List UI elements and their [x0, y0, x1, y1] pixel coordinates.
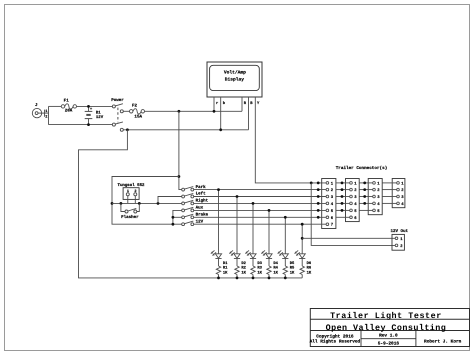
svg-text:D4: D4: [273, 261, 278, 265]
resistor R2 1K: [235, 261, 246, 278]
wire ground rail from power switch to display B pin corner: [123, 129, 248, 131]
flasher FL1 Tungsol 552: [117, 183, 144, 203]
svg-text:1K: 1K: [241, 271, 246, 275]
junction +12V at x179: [178, 110, 181, 113]
wire trailer row 6: [194, 216, 350, 218]
svg-text:R4: R4: [273, 266, 278, 270]
junction row tap D3: [252, 202, 255, 205]
svg-text:3: 3: [354, 195, 357, 200]
wire display pin Y to trailer row 1: [255, 97, 326, 183]
connector CN5 12V Out: [391, 229, 409, 251]
svg-text:4: 4: [354, 202, 357, 207]
wire trailer row 1: [336, 182, 397, 184]
junction battery top: [87, 105, 90, 108]
wire trailer row 7: [194, 223, 326, 225]
wire riser to Brake input: [173, 216, 182, 218]
svg-text:Open Valley Consulting: Open Valley Consulting: [326, 323, 447, 333]
svg-text:D3: D3: [257, 261, 262, 266]
svg-text:1: 1: [377, 181, 380, 186]
svg-text:Robert J. Korn: Robert J. Korn: [424, 339, 461, 344]
connector CN4 trailer 4-pin: [392, 179, 405, 208]
svg-text:Park: Park: [196, 184, 206, 189]
wire trailer row 3: [194, 196, 397, 198]
wire J to F1 / battery loop: [49, 106, 113, 124]
svg-text:Volt/Amp: Volt/Amp: [224, 69, 246, 75]
junction pin b: [219, 128, 222, 131]
svg-text:All Rights Reserved: All Rights Reserved: [310, 339, 361, 344]
svg-text:D2: D2: [241, 261, 246, 266]
wire +12V drop to switch feed: [179, 111, 182, 189]
junction Left branch: [157, 202, 160, 205]
svg-text:R3: R3: [257, 266, 262, 271]
svg-text:6: 6: [354, 216, 357, 221]
svg-text:2: 2: [354, 188, 357, 193]
svg-text:F2: F2: [132, 103, 137, 108]
junction ground rail R5: [284, 277, 287, 280]
svg-text:D1: D1: [223, 261, 228, 265]
resistor R5 1K: [283, 261, 294, 278]
junction riser/12V feed: [172, 223, 175, 226]
svg-text:2: 2: [400, 244, 403, 249]
svg-text:b: b: [223, 101, 226, 106]
svg-text:3: 3: [331, 195, 334, 200]
junction row tap D6: [301, 223, 304, 226]
wire Left switch riser: [158, 197, 182, 204]
resistor R6 1K: [300, 261, 311, 278]
wire 12V to 12V Out pin1: [302, 237, 395, 239]
junction +12V feed node: [178, 175, 181, 178]
svg-text:4: 4: [401, 202, 404, 207]
svg-text:F1: F1: [64, 98, 69, 103]
junction row tap D1: [217, 188, 220, 191]
junction row1 to 12V out: [310, 182, 313, 185]
LED D2: [229, 197, 240, 267]
junction ground rail R2: [236, 277, 239, 280]
junction flasher sw right: [138, 202, 141, 205]
wire +12V feed to flasher branch: [112, 177, 182, 225]
junction flasher sw left: [120, 202, 123, 205]
svg-text:Left: Left: [196, 191, 206, 196]
junction row tap D4: [268, 209, 271, 212]
junction pin r: [213, 110, 216, 113]
junction ground at x127: [126, 128, 129, 131]
svg-text:Aux: Aux: [196, 205, 204, 210]
junction ground rail R3: [252, 277, 255, 280]
svg-text:Display: Display: [225, 77, 245, 83]
svg-text:1: 1: [400, 237, 403, 242]
connector J (DC power jack): [32, 103, 48, 119]
junction battery bottom: [87, 123, 90, 126]
svg-text:1: 1: [401, 181, 404, 186]
connector CN3 trailer 5-pin: [368, 179, 382, 215]
junction riser/Brake: [172, 216, 175, 219]
svg-text:D6: D6: [307, 261, 312, 266]
svg-text:7: 7: [331, 223, 334, 228]
fuse F1 20A: [61, 98, 76, 113]
junctions at connector pass-throughs: [317, 182, 366, 219]
resistor R4 1K: [267, 261, 278, 278]
svg-text:2: 2: [45, 115, 47, 119]
wire +12V F2 to display R pin corner: [145, 110, 243, 112]
wire flasher net: [112, 202, 182, 204]
svg-text:Y: Y: [257, 101, 260, 105]
svg-text:1K: 1K: [223, 271, 228, 275]
svg-text:2: 2: [401, 188, 404, 193]
resistor R1 1K: [216, 261, 227, 278]
svg-text:2: 2: [331, 188, 334, 193]
wire row1 down to 12V Out pin2: [311, 183, 395, 246]
LED D5: [277, 217, 288, 266]
wire display pin B: [248, 97, 250, 130]
svg-text:1: 1: [45, 110, 48, 114]
wire display pin R: [241, 97, 243, 111]
svg-text:Copyright 2016: Copyright 2016: [316, 334, 353, 339]
svg-text:Trailer Light Tester: Trailer Light Tester: [330, 311, 442, 321]
junction ground rail R1: [217, 277, 220, 280]
LED D6: [294, 224, 305, 266]
battery B1 12V: [85, 106, 104, 124]
wire Aux/Brake riser: [173, 210, 182, 224]
svg-text:6: 6: [331, 216, 334, 221]
svg-text:R6: R6: [307, 266, 312, 271]
svg-text:D5: D5: [290, 261, 295, 265]
svg-text:20A: 20A: [65, 108, 73, 113]
svg-text:1K: 1K: [257, 271, 262, 275]
svg-text:12V: 12V: [196, 219, 204, 224]
junction row tap D5: [284, 216, 287, 219]
junction ground rail R4: [268, 277, 271, 280]
switch SW Brake: [182, 212, 208, 219]
wire ground down left side and bottom rail: [79, 130, 303, 278]
svg-text:1: 1: [331, 181, 334, 186]
fuse F2 15A: [130, 103, 145, 119]
svg-text:1K: 1K: [273, 271, 278, 275]
LED D1: [211, 190, 222, 266]
wire trailer row 5: [194, 209, 373, 211]
svg-text:4: 4: [331, 202, 334, 207]
svg-text:1K: 1K: [290, 271, 295, 275]
meter U1 Volt/Amp display: [207, 62, 262, 105]
wire trailer row 4: [194, 202, 397, 204]
junction row tap D2: [236, 195, 239, 198]
svg-text:Power: Power: [111, 98, 124, 103]
title block: [310, 309, 470, 347]
wire display pin r: [213, 97, 215, 111]
svg-text:R: R: [244, 101, 247, 105]
svg-text:1: 1: [354, 181, 357, 186]
switch SW Aux: [182, 205, 203, 212]
wire F1 to battery/power switch: [77, 105, 113, 107]
switch SW Right: [182, 198, 208, 205]
connector CN1 trailer 7-pin: [322, 179, 336, 229]
svg-text:4: 4: [377, 202, 380, 207]
connector CN2 trailer 6-pin: [346, 179, 360, 222]
LED D3: [245, 203, 256, 266]
svg-text:5: 5: [377, 209, 380, 214]
switch SW Flasher (bypass): [121, 203, 139, 219]
wire trailer row 2: [194, 189, 397, 191]
svg-text:R5: R5: [290, 266, 295, 270]
svg-text:3: 3: [401, 195, 404, 200]
svg-text:R2: R2: [241, 266, 246, 271]
switch SW 12V: [182, 219, 204, 226]
svg-text:5: 5: [354, 209, 357, 214]
svg-text:3: 3: [377, 195, 380, 200]
svg-text:B: B: [250, 101, 253, 105]
svg-text:5-9-2016: 5-9-2016: [378, 341, 399, 346]
svg-text:5: 5: [331, 209, 334, 214]
svg-text:Brake: Brake: [196, 212, 209, 217]
svg-text:15A: 15A: [134, 114, 142, 119]
junction col6 12V tap: [301, 237, 304, 240]
svg-text:Flasher: Flasher: [121, 215, 139, 220]
svg-text:12V: 12V: [96, 115, 103, 120]
svg-text:Right: Right: [196, 198, 209, 203]
label Trailer Connector(s): [336, 166, 388, 171]
switch SW Left: [182, 191, 206, 198]
wire display pin b: [220, 97, 222, 130]
svg-text:Trailer Connector(s): Trailer Connector(s): [336, 166, 388, 171]
junction flasher input branch: [111, 202, 114, 205]
svg-text:Tungsol 552: Tungsol 552: [117, 183, 144, 188]
svg-text:J: J: [35, 103, 38, 108]
LED D4: [261, 210, 272, 266]
svg-text:Rev 1.0: Rev 1.0: [379, 333, 398, 338]
svg-text:2: 2: [377, 188, 380, 193]
wire power switch to F2: [123, 110, 129, 112]
switch SW Power (DPST): [111, 98, 124, 132]
resistor R3 1K: [251, 261, 262, 278]
switch SW Park: [182, 184, 206, 191]
svg-text:R1: R1: [223, 266, 228, 270]
svg-text:r: r: [216, 101, 219, 105]
svg-text:12V Out: 12V Out: [391, 229, 409, 234]
svg-text:1K: 1K: [307, 271, 312, 275]
